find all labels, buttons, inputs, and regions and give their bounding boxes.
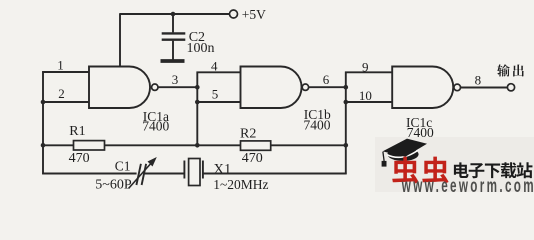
svg-text:4: 4 — [211, 59, 218, 74]
node +5V/C2 junction — [171, 12, 176, 17]
watermark 电子下载站 text — [454, 162, 533, 178]
pin number 1 — [57, 57, 64, 72]
pin number 2 — [58, 86, 64, 101]
node R1/R2 mid junction — [195, 143, 200, 148]
wire pin 2 input — [42, 101, 90, 103]
svg-text:10: 10 — [359, 88, 372, 103]
node R1 left junction — [41, 143, 46, 148]
svg-text:470: 470 — [242, 151, 263, 166]
node IC1b output junction — [344, 85, 349, 90]
pin number 5 — [212, 86, 219, 101]
svg-text:8: 8 — [475, 73, 482, 88]
svg-text:3: 3 — [172, 72, 179, 87]
wire pin 10 input — [345, 101, 393, 103]
crystal X1 — [184, 159, 203, 186]
label IC1a — [143, 109, 169, 124]
svg-text:7400: 7400 — [304, 118, 331, 133]
svg-text:R1: R1 — [69, 124, 85, 139]
svg-text:7400: 7400 — [142, 119, 169, 134]
wire pin 3 output — [158, 86, 197, 88]
pin number 9 — [362, 59, 369, 74]
label C1 — [115, 158, 131, 173]
NAND gate IC1c — [392, 67, 460, 109]
label C2 — [189, 30, 205, 45]
watermark 虫虫 red logo text — [392, 157, 448, 184]
wire feedback resistor row — [42, 144, 346, 146]
wire bottom row right — [203, 173, 347, 175]
watermark www.eeworm.com — [401, 176, 534, 196]
capacitor C1 (variable trimmer) — [129, 157, 157, 189]
ground — [161, 59, 185, 63]
label R2 — [240, 127, 256, 142]
value 7400 (IC1a) — [142, 119, 169, 134]
output terminal — [507, 84, 514, 91]
svg-text:www.eeworm.com: www.eeworm.com — [401, 176, 534, 194]
wire pin 1 input — [42, 71, 90, 73]
wire pin 9 input — [345, 71, 393, 73]
svg-text:6: 6 — [323, 72, 330, 87]
node pin10 junction — [344, 100, 349, 105]
wire IC1a power lead — [119, 13, 121, 67]
svg-text:9: 9 — [362, 59, 369, 74]
svg-text:1: 1 — [57, 57, 64, 72]
wire pin 6 output — [309, 86, 346, 88]
pin number 4 — [211, 59, 218, 74]
label 输出 (output) — [497, 64, 524, 76]
value 7400 (IC1b) — [304, 118, 331, 133]
pin number 8 — [475, 73, 482, 88]
pin number 3 — [172, 72, 179, 87]
svg-text:C1: C1 — [115, 158, 131, 173]
value 7400 (IC1c) — [407, 125, 434, 140]
svg-text:+5V: +5V — [242, 7, 266, 22]
pin number 10 — [359, 88, 372, 103]
resistor R2 — [241, 141, 271, 150]
svg-text:470: 470 — [69, 151, 90, 166]
node pin5 junction — [195, 100, 200, 105]
wire bottom row left — [42, 173, 136, 175]
svg-text:100n: 100n — [187, 41, 215, 56]
value 1~20MHz — [213, 177, 268, 192]
label R1 — [69, 124, 85, 139]
wire bottom row mid — [144, 173, 185, 175]
value 470 (R2) — [242, 151, 263, 166]
+5V terminal — [230, 10, 238, 18]
value 100n — [187, 41, 215, 56]
wire pin 4 input — [197, 71, 242, 73]
NAND gate IC1a — [89, 67, 158, 109]
svg-text:R2: R2 — [240, 127, 256, 142]
svg-text:5: 5 — [212, 86, 219, 101]
watermark graduation cap logo — [382, 139, 427, 167]
resistor R1 — [74, 141, 105, 150]
label IC1b — [304, 107, 331, 122]
svg-text:5~60P: 5~60P — [95, 177, 132, 192]
wire +5V rail — [120, 13, 230, 15]
node IC1a output junction — [195, 85, 200, 90]
NAND gate IC1b — [241, 67, 309, 109]
wire pin 5 input — [197, 101, 242, 103]
value 470 (R1) — [69, 151, 90, 166]
wire node C vertical (IC1b out to IC1c in) — [345, 72, 347, 175]
watermark background box — [375, 137, 534, 192]
wire left input rail (node A) — [42, 71, 44, 174]
svg-text:2: 2 — [58, 86, 64, 101]
label +5V — [242, 7, 266, 22]
svg-text:X1: X1 — [214, 161, 232, 177]
wire node B vertical (IC1a out to IC1b in) — [196, 72, 198, 147]
svg-text:1~20MHz: 1~20MHz — [213, 177, 268, 192]
label X1 — [214, 161, 232, 177]
wire pin 8 output — [461, 87, 508, 89]
label IC1c — [406, 115, 432, 130]
node R2 right junction — [344, 143, 349, 148]
node pin2 junction — [41, 100, 46, 105]
pin number 6 — [323, 72, 330, 87]
value 5~60P — [95, 177, 132, 192]
capacitor C2 — [162, 14, 186, 60]
